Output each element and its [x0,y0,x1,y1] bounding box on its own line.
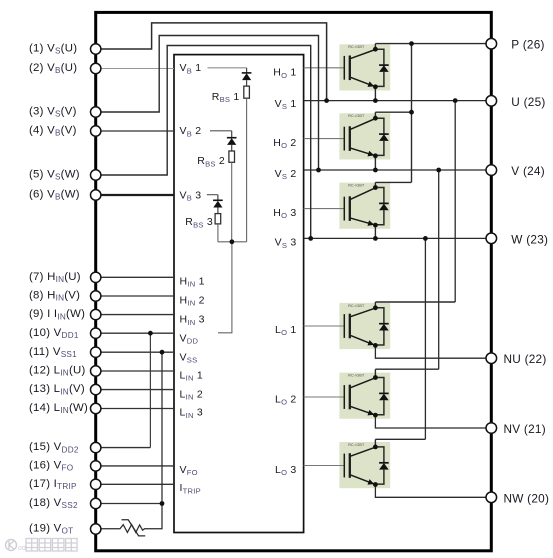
svg-text:W (23): W (23) [511,232,548,246]
svg-text:(4) VB​(V): (4) VB​(V) [29,125,77,138]
svg-text:P (26): P (26) [511,38,544,52]
svg-text:NV (21): NV (21) [504,422,546,436]
svg-text:NU (22): NU (22) [504,352,547,366]
svg-text:RC-IGBT: RC-IGBT [348,304,365,308]
svg-text:(14) LIN​(W): (14) LIN​(W) [29,402,88,415]
svg-text:(1) VS​(U): (1) VS​(U) [29,43,77,56]
svg-text:RC-IGBT: RC-IGBT [348,114,365,118]
svg-text:(6) VB​(W): (6) VB​(W) [29,189,80,202]
svg-text:oo: oo [18,545,26,552]
svg-text:(5) VS​(W): (5) VS​(W) [29,169,80,182]
svg-text:(2) VB​(U): (2) VB​(U) [29,62,77,75]
svg-text:V (24): V (24) [511,164,545,178]
svg-text:(8) HIN​(V): (8) HIN​(V) [29,290,80,303]
svg-text:(7) HIN​(U): (7) HIN​(U) [29,271,81,284]
svg-text:U (25): U (25) [511,95,545,109]
svg-text:RC-IGBT: RC-IGBT [348,443,365,447]
svg-text:(3) VS​(V): (3) VS​(V) [29,106,77,119]
svg-text:(9) I IIN​(W): (9) I IIN​(W) [29,308,85,321]
svg-text:(13) LIN​(V): (13) LIN​(V) [29,383,85,396]
svg-text:RC-IGBT: RC-IGBT [348,184,365,188]
svg-text:(12) LIN​(U): (12) LIN​(U) [29,365,86,378]
svg-text:RC-IGBT: RC-IGBT [348,45,365,49]
svg-text:RC-IGBT: RC-IGBT [348,374,365,378]
svg-text:NW (20): NW (20) [504,491,550,505]
